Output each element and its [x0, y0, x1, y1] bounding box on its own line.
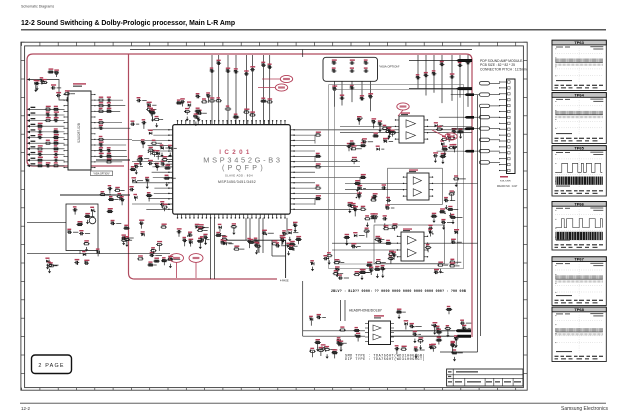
svg-text:MSP3452G-B3: MSP3452G-B3 — [203, 155, 282, 164]
svg-text:KS9-T2NR: KS9-T2NR — [500, 181, 511, 183]
svg-text:PCB SIZE : 82 * 82 * 25: PCB SIZE : 82 * 82 * 25 — [480, 63, 515, 67]
svg-text:CONNECTOR PITCH : 12.5mm: CONNECTOR PITCH : 12.5mm — [480, 68, 527, 72]
svg-text:4-PAGE: 4-PAGE — [280, 280, 289, 283]
svg-text:DIP TYPE : TDA7560T(WD3100GHGT: DIP TYPE : TDA7560T(WD3100GHGT) — [345, 357, 425, 362]
svg-text:TP67: TP67 — [574, 257, 584, 262]
svg-text:TP66: TP66 — [574, 201, 584, 206]
svg-text:*ASIA OPTION*: *ASIA OPTION* — [379, 64, 400, 68]
svg-text:12-2 Sound Swithcing & Dolby-P: 12-2 Sound Swithcing & Dolby-Prologic pr… — [21, 20, 235, 27]
svg-text:2BLV? : BLD?? 0000: ?? 0000 00: 2BLV? : BLD?? 0000: ?? 0000 0000 0000 00… — [331, 289, 466, 293]
svg-text:Samsung Electronics: Samsung Electronics — [561, 406, 608, 412]
svg-text:12-2: 12-2 — [21, 406, 31, 411]
svg-text:*ASIA OPTION*: *ASIA OPTION* — [93, 173, 109, 176]
svg-text:TP63: TP63 — [574, 40, 584, 45]
svg-text:Schematic Diagrams: Schematic Diagrams — [21, 5, 54, 9]
svg-text:PDP SOUND AMP MODULE.: PDP SOUND AMP MODULE. — [480, 59, 523, 63]
svg-text:TP65: TP65 — [574, 146, 584, 151]
svg-text:TP64: TP64 — [574, 93, 584, 98]
svg-text:TP68: TP68 — [574, 307, 584, 312]
svg-text:MSP3450/3451/3452: MSP3450/3451/3452 — [218, 180, 256, 184]
svg-text:2 PAGE: 2 PAGE — [38, 363, 64, 369]
svg-text:SLAVE ADD : 80H: SLAVE ADD : 80H — [225, 174, 253, 178]
svg-text:S2A0287-02B: S2A0287-02B — [77, 123, 81, 143]
svg-text:(PQFP): (PQFP) — [222, 165, 266, 172]
svg-text:HEADPHONE/DOLBY: HEADPHONE/DOLBY — [349, 309, 383, 313]
svg-text:MACRO NO. : 1017: MACRO NO. : 1017 — [497, 185, 518, 188]
